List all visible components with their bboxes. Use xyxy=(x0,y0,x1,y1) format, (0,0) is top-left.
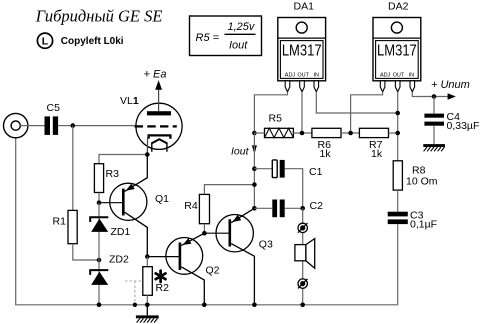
svg-text:0,1µF: 0,1µF xyxy=(410,219,437,231)
Iout arrow xyxy=(231,145,257,157)
wire C3 to rail xyxy=(397,224,399,305)
wire R1 to zener node xyxy=(73,244,99,260)
svg-text:+ Unum: + Unum xyxy=(431,79,470,91)
wire DA1 IN xyxy=(316,92,397,113)
node C4 top xyxy=(432,94,437,99)
svg-text:R1: R1 xyxy=(53,215,67,227)
svg-text:C1: C1 xyxy=(309,166,323,178)
wire input to C5 xyxy=(20,125,44,127)
node C1 left xyxy=(252,166,257,171)
wire C1 right xyxy=(285,169,303,209)
svg-text:IN: IN xyxy=(409,72,415,78)
wire zener column xyxy=(98,203,100,305)
wire DA1 ADJ xyxy=(254,92,287,133)
svg-text:VL1: VL1 xyxy=(120,95,139,107)
wire speaker column xyxy=(302,208,304,304)
svg-text:Copyleft L0ki: Copyleft L0ki xyxy=(61,36,124,47)
svg-text:L: L xyxy=(42,36,49,48)
svg-text:ZD1: ZD1 xyxy=(111,226,131,238)
wire node to R2 xyxy=(146,257,148,267)
svg-text:ZD2: ZD2 xyxy=(109,253,129,265)
wire R2 to rail xyxy=(146,295,148,305)
node R2 rail xyxy=(145,303,150,308)
connector speaker bottom xyxy=(298,279,308,289)
capacitor C1 xyxy=(272,160,322,178)
wire R4 top xyxy=(204,185,254,195)
node zener mid xyxy=(97,258,102,263)
svg-text:10 Om: 10 Om xyxy=(406,176,438,188)
wire C2 left xyxy=(254,207,272,209)
svg-text:R5 =: R5 = xyxy=(196,32,220,44)
wire C5 to grid node xyxy=(58,125,73,127)
node Q1 collector xyxy=(145,254,150,259)
svg-text:R4: R4 xyxy=(184,200,198,212)
wire DA2 IN xyxy=(412,92,448,97)
wire base node to Q1 xyxy=(99,202,122,204)
node R6 R7 xyxy=(348,131,353,136)
wire node to Q3 base xyxy=(204,232,228,234)
wire R3 top to cathode node xyxy=(99,155,147,164)
node speaker rail xyxy=(300,303,305,308)
wire Iout column xyxy=(253,133,255,208)
capacitor C4 xyxy=(424,111,479,132)
node zener rail xyxy=(97,303,102,308)
wire DA1 OUT xyxy=(301,92,303,133)
node dashed rail xyxy=(133,303,137,307)
wire DA2 ADJ xyxy=(351,92,383,133)
capacitor C3 xyxy=(388,209,437,230)
resistor R6 xyxy=(312,128,341,160)
svg-text:OUT: OUT xyxy=(393,72,405,78)
ground C4 xyxy=(423,144,445,151)
wire bottom rail xyxy=(16,138,398,305)
svg-text:Iout: Iout xyxy=(229,39,248,51)
wire C4 top xyxy=(433,97,435,114)
svg-text:+ Ea: + Ea xyxy=(144,68,167,80)
svg-text:1k: 1k xyxy=(371,148,383,160)
svg-text:R3: R3 xyxy=(106,168,120,180)
resistor R2 xyxy=(143,267,169,296)
node R7 right xyxy=(395,131,400,136)
copyleft logo xyxy=(37,33,52,48)
+Unum arrow xyxy=(431,79,470,100)
node input xyxy=(71,123,76,128)
resistor R3 xyxy=(94,164,119,193)
node Q2 rail xyxy=(202,303,207,308)
input connector xyxy=(4,113,28,137)
svg-text:R8: R8 xyxy=(412,164,426,176)
dashed adjust mark xyxy=(125,281,143,303)
regulator DA2 xyxy=(373,1,421,92)
node R5 left xyxy=(252,131,257,136)
svg-text:Q2: Q2 xyxy=(206,265,220,277)
capacitor C5 xyxy=(45,102,61,135)
svg-text:Iout: Iout xyxy=(231,146,250,158)
tube VL1 xyxy=(120,83,182,155)
svg-text:ADJ: ADJ xyxy=(285,72,296,78)
resistor R1 xyxy=(53,210,78,243)
transistor Q2 xyxy=(166,233,220,305)
formula box xyxy=(190,16,262,56)
wire C1 left xyxy=(254,168,272,170)
asterisk R2 xyxy=(156,271,166,282)
svg-text:ADJ: ADJ xyxy=(380,72,391,78)
node Q3 rail xyxy=(252,303,257,308)
transistor Q3 xyxy=(216,208,273,304)
wire R3 to base node xyxy=(98,193,100,203)
resistor R8 xyxy=(393,161,438,190)
resistor R4 xyxy=(184,194,209,223)
resistor R5 xyxy=(265,113,294,138)
+Ea supply arrow xyxy=(144,68,167,90)
node R4 top xyxy=(252,182,257,187)
wire R6 to R7 xyxy=(341,132,359,134)
svg-text:0,33µF: 0,33µF xyxy=(447,120,480,132)
node C2 right xyxy=(300,206,305,211)
svg-text:LM317: LM317 xyxy=(282,42,322,59)
speaker xyxy=(295,239,315,269)
svg-text:Q1: Q1 xyxy=(155,193,169,205)
node IN1 OUT2 xyxy=(395,111,400,116)
wire R5 to R6 xyxy=(293,132,312,134)
wire R5 row xyxy=(254,132,264,134)
node C2 left xyxy=(252,206,257,211)
resistor R7 xyxy=(359,128,388,160)
wire DA2 OUT xyxy=(397,92,399,161)
transistor Q1 xyxy=(110,155,169,257)
wire node to tube grid xyxy=(73,125,137,127)
svg-text:1,25v: 1,25v xyxy=(228,21,256,33)
svg-text:DA1: DA1 xyxy=(294,1,315,13)
zener ZD1 xyxy=(90,217,130,238)
svg-text:Q3: Q3 xyxy=(259,239,273,251)
svg-text:C2: C2 xyxy=(310,200,324,212)
zener ZD2 xyxy=(90,253,129,285)
svg-text:LM317: LM317 xyxy=(377,42,417,59)
connector speaker top xyxy=(298,223,308,233)
wire C4 bottom xyxy=(433,126,435,144)
node cathode xyxy=(145,152,150,157)
ground main xyxy=(136,305,159,323)
wire node down to R1 xyxy=(72,126,74,211)
svg-text:Гибридный GE SE: Гибридный GE SE xyxy=(35,6,163,25)
svg-text:DA2: DA2 xyxy=(388,1,409,13)
capacitor C2 xyxy=(272,200,323,218)
wire C2 right xyxy=(285,207,303,209)
regulator DA1 xyxy=(278,1,326,92)
svg-text:1k: 1k xyxy=(320,148,332,160)
node Q2 emitter R4 xyxy=(202,231,207,236)
wire node to Q2 base xyxy=(147,256,178,258)
svg-text:OUT: OUT xyxy=(297,72,309,78)
svg-text:C5: C5 xyxy=(47,102,61,114)
svg-text:IN: IN xyxy=(313,72,319,78)
wire R7 to R8 node xyxy=(389,132,398,134)
wire R8 to C3 xyxy=(397,190,399,212)
svg-text:R2: R2 xyxy=(156,282,170,294)
node R5 right xyxy=(300,131,305,136)
svg-text:R5: R5 xyxy=(269,113,283,125)
wire R4 bottom xyxy=(203,224,205,234)
node base Q1 xyxy=(97,200,102,205)
